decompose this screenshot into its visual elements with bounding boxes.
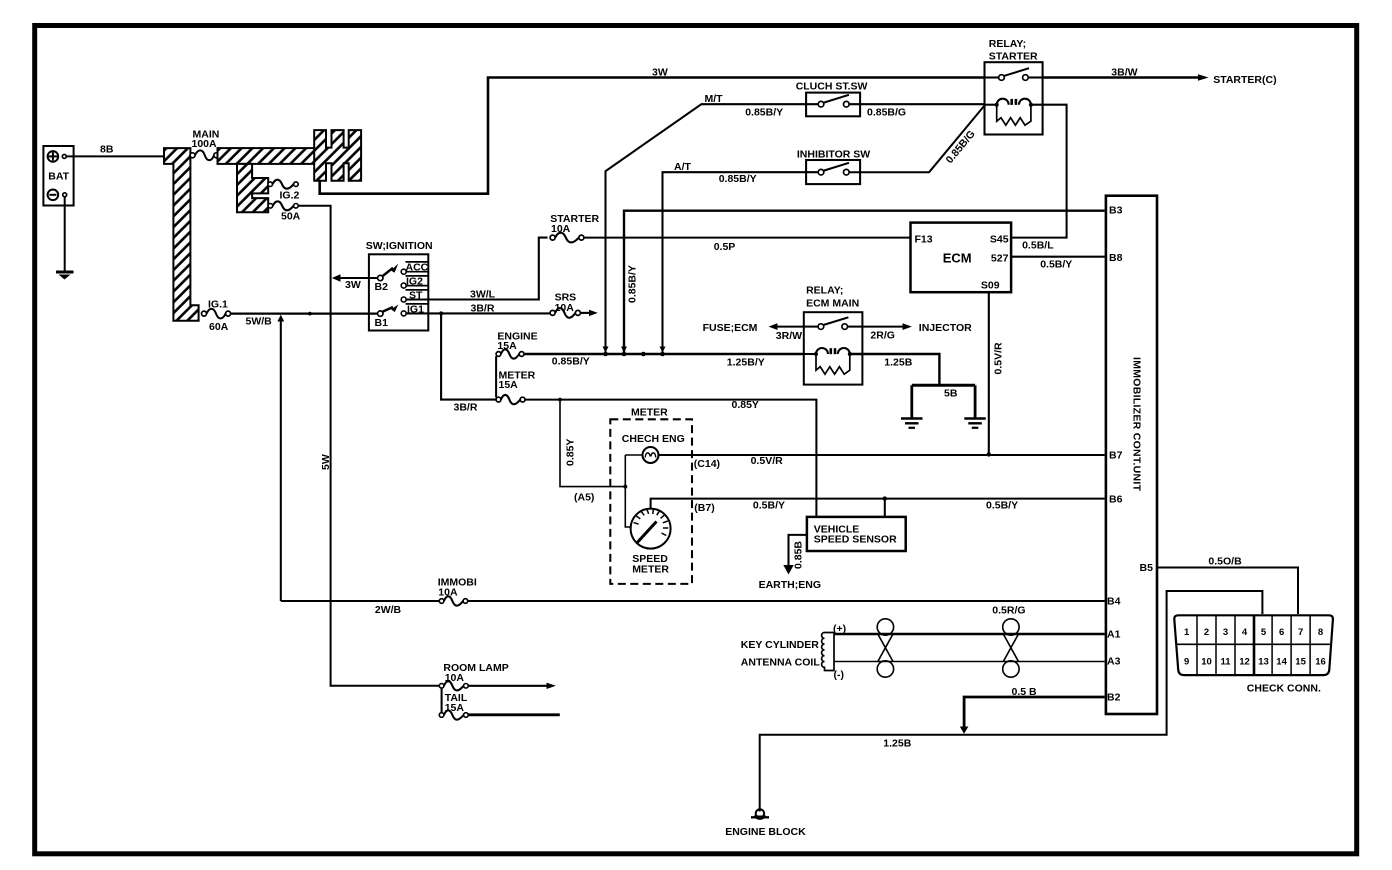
svg-text:5: 5: [1261, 627, 1267, 638]
terminal ACC: [401, 269, 406, 274]
wire 3W/L : ST to STARTER fuse: [406, 238, 547, 300]
wire 8B battery positive to fusible link: [67, 155, 165, 157]
battery BAT: [43, 146, 73, 206]
svg-text:8: 8: [1318, 627, 1323, 638]
svg-text:1.25B/Y: 1.25B/Y: [727, 356, 765, 368]
svg-text:3B/W: 3B/W: [1111, 66, 1137, 78]
wire 5W : IG.2 output down to room-lamp fuses: [298, 206, 439, 686]
svg-text:15: 15: [1295, 657, 1306, 668]
svg-text:ECM: ECM: [943, 250, 972, 265]
wire A/T branch: [663, 172, 819, 352]
sensor VEHICLE SPEED SENSOR: [807, 517, 906, 551]
svg-text:11: 11: [1220, 657, 1231, 668]
svg-text:(-): (-): [834, 669, 845, 681]
svg-text:14: 14: [1276, 657, 1287, 668]
fuse ROOM LAMP 10A with arrow: [439, 684, 444, 689]
svg-text:10: 10: [1201, 657, 1212, 668]
meter internal vertical: [625, 455, 631, 527]
svg-text:60A: 60A: [209, 321, 229, 333]
svg-text:10A: 10A: [555, 302, 575, 314]
junction dots on bus: [603, 352, 608, 357]
connector pin numbers 1-8: [1184, 627, 1323, 638]
relay starter coil: [985, 104, 997, 106]
ground bar 5B: [912, 384, 975, 387]
svg-text:2: 2: [1204, 627, 1209, 638]
svg-text:3W: 3W: [652, 66, 668, 78]
wire 1.25B : relay coil to ground bar: [850, 354, 940, 385]
meter box (dashed): [610, 419, 692, 584]
svg-text:2W/B: 2W/B: [375, 604, 402, 616]
svg-text:15A: 15A: [499, 379, 519, 391]
wire B3 branch (vertical + horizontal to immobilizer B3): [624, 211, 1105, 352]
svg-text:B6: B6: [1109, 493, 1123, 505]
svg-text:ANTENNA COIL: ANTENNA COIL: [741, 657, 821, 669]
wire 0.5P : STARTER fuse to ECM F13: [584, 237, 911, 239]
svg-text:3W: 3W: [345, 279, 361, 291]
wire 0.5B/Y : speedometer to immobilizer B6: [651, 499, 1105, 509]
svg-text:IG.2: IG.2: [280, 189, 300, 201]
svg-text:15A: 15A: [445, 702, 465, 714]
junction dot on 5W/B: [308, 312, 312, 316]
svg-text:0.5V/R: 0.5V/R: [993, 342, 1005, 375]
fuse (upper, unlabeled): [268, 182, 273, 187]
svg-text:12: 12: [1239, 657, 1250, 668]
svg-text:B2: B2: [1107, 691, 1121, 703]
svg-text:3R/W: 3R/W: [776, 330, 802, 342]
svg-text:7: 7: [1298, 627, 1303, 638]
switch CLUCH ST.SW: [806, 93, 860, 117]
svg-text:(B7): (B7): [694, 502, 714, 514]
wire to IMMOBI fuse (down from 5W/B) with up arrow: [277, 315, 284, 322]
branch to meter (A5): [558, 398, 562, 402]
wire 3B/R : IG1 to SRS fuse: [406, 312, 550, 314]
IG.2 branch hatched bar: [237, 164, 268, 212]
svg-text:B2: B2: [375, 281, 389, 293]
svg-text:0.5B/Y: 0.5B/Y: [986, 499, 1018, 511]
wire 3B/W : relay to STARTER(C): [1043, 76, 1200, 79]
relay RELAY;ECM MAIN: [804, 312, 863, 384]
wire 0.5O/B : B5 to check connector pin 7: [1157, 568, 1298, 615]
fuse IMMOBI 10A + wire 2W/B / 0.5R/G to immobilizer B4: [281, 600, 440, 602]
svg-text:5W: 5W: [320, 454, 332, 470]
svg-text:ENGINE BLOCK: ENGINE BLOCK: [725, 826, 806, 838]
svg-text:0.85B/Y: 0.85B/Y: [719, 173, 757, 185]
svg-text:0.5B/L: 0.5B/L: [1022, 240, 1054, 252]
svg-text:ACC: ACC: [406, 262, 429, 274]
svg-text:1.25B: 1.25B: [884, 357, 912, 369]
svg-text:10A: 10A: [445, 672, 465, 684]
fuse TAIL 15A: [441, 688, 443, 713]
terminal IG1: [401, 311, 406, 316]
svg-text:EARTH;ENG: EARTH;ENG: [759, 579, 821, 591]
vertical joining ENGINE/METER fuse inputs: [495, 356, 497, 397]
svg-text:0.5P: 0.5P: [714, 241, 736, 253]
wire 0.85B : sensor to EARTH;ENG: [789, 535, 807, 566]
svg-text:10A: 10A: [438, 587, 458, 599]
svg-text:0.5B/Y: 0.5B/Y: [1040, 258, 1072, 270]
wire 3R/W from FUSE;ECM: [769, 323, 778, 330]
svg-text:SPEED SENSOR: SPEED SENSOR: [814, 534, 897, 546]
svg-text:CHECH ENG: CHECH ENG: [622, 433, 685, 445]
wire 0.85B/Y / 1.25B/Y bus: [524, 353, 804, 355]
svg-text:STARTER(C): STARTER(C): [1213, 74, 1276, 86]
connector pin numbers 9-16: [1184, 657, 1326, 668]
svg-text:IMMOBILIZER CONT.UNIT: IMMOBILIZER CONT.UNIT: [1131, 357, 1143, 492]
svg-text:5W/B: 5W/B: [246, 316, 273, 328]
svg-text:6: 6: [1279, 627, 1284, 638]
horizontal hatched bus bar: [218, 148, 316, 164]
ECM box: [911, 223, 1012, 293]
immobilizer control unit box: [1106, 196, 1157, 714]
svg-text:RELAY;: RELAY;: [806, 284, 843, 296]
svg-text:0.85Y: 0.85Y: [732, 399, 759, 411]
svg-text:3: 3: [1223, 627, 1228, 638]
svg-text:FUSE;ECM: FUSE;ECM: [703, 322, 758, 334]
fuse STARTER 10A: [550, 235, 555, 240]
svg-text:METER: METER: [632, 564, 669, 576]
svg-text:0.5O/B: 0.5O/B: [1208, 556, 1242, 568]
wire 1.25B : ground run to engine block and check connector pin 5: [760, 591, 1263, 812]
svg-text:0.85B: 0.85B: [793, 541, 805, 569]
wire 0.85B/G cluch to starter relay coil: [849, 103, 984, 105]
wire 3W : to B2 with left arrow: [332, 274, 341, 281]
wire 0.5B/Y : ECM 527 to immobilizer B8: [1011, 256, 1105, 258]
svg-text:100A: 100A: [192, 138, 218, 150]
svg-text:1: 1: [1184, 627, 1190, 638]
svg-text:B8: B8: [1109, 252, 1123, 264]
comb fusible-link block: [314, 130, 361, 181]
fuse METER 15A: [496, 397, 501, 402]
svg-text:0.5R/G: 0.5R/G: [992, 605, 1025, 617]
svg-text:0.5 B: 0.5 B: [1012, 686, 1038, 698]
svg-text:B4: B4: [1107, 596, 1121, 608]
wire 0.5B/L : relay coil down to ECM S45 / immobilizer B3: [1011, 105, 1067, 238]
svg-text:A3: A3: [1107, 656, 1121, 668]
svg-text:CLUCH ST.SW: CLUCH ST.SW: [796, 80, 868, 92]
svg-text:F13: F13: [915, 233, 933, 245]
svg-text:INJECTOR: INJECTOR: [919, 322, 972, 334]
fusible link IG.1 60A: [202, 311, 207, 316]
svg-text:15A: 15A: [497, 340, 517, 352]
connector CHECK CONN.: [1174, 615, 1333, 675]
svg-text:0.85B/Y: 0.85B/Y: [627, 265, 639, 303]
wire 3W : comb link to starter relay: [320, 78, 985, 194]
svg-text:B3: B3: [1109, 204, 1123, 216]
terminal IG2: [401, 283, 406, 288]
svg-text:IG.1: IG.1: [208, 299, 228, 311]
svg-text:S45: S45: [990, 233, 1009, 245]
speedometer SPEED METER: [631, 509, 671, 549]
wire 5W/B : IG.1 to ignition switch B1: [231, 313, 378, 315]
svg-text:INHIBITOR SW: INHIBITOR SW: [797, 149, 870, 161]
svg-text:BAT: BAT: [48, 170, 69, 182]
svg-text:(A5): (A5): [574, 492, 594, 504]
svg-text:RELAY;: RELAY;: [989, 38, 1026, 50]
svg-text:13: 13: [1258, 657, 1269, 668]
terminal ST: [401, 297, 406, 302]
svg-text:2R/G: 2R/G: [870, 330, 895, 342]
svg-text:S09: S09: [981, 280, 1000, 292]
terminal B1 with blade: [378, 311, 383, 316]
wire (-) coil to immobilizer A3: [834, 661, 1105, 663]
fuse IG.2 50A: [268, 204, 273, 209]
svg-text:A/T: A/T: [674, 161, 692, 173]
svg-text:B1: B1: [375, 317, 389, 329]
wire M/T branch (vertical + diagonal): [606, 104, 819, 352]
svg-text:0.85Y: 0.85Y: [565, 439, 577, 466]
svg-text:(C14): (C14): [694, 458, 720, 470]
ground (battery): [56, 271, 74, 274]
terminal B2 with blade: [378, 275, 383, 280]
svg-text:0.5B/Y: 0.5B/Y: [753, 500, 785, 512]
svg-text:10A: 10A: [551, 223, 571, 235]
svg-text:SW;IGNITION: SW;IGNITION: [366, 240, 433, 252]
wire 0.85Y : METER fuse to vehicle speed sensor: [525, 400, 816, 517]
svg-text:METER: METER: [631, 406, 668, 418]
fuse ENGINE 15A: [496, 352, 501, 357]
svg-text:3B/R: 3B/R: [454, 402, 478, 414]
ground (left of 5B): [901, 417, 923, 420]
relay RELAY;STARTER: [985, 62, 1043, 134]
svg-text:3B/R: 3B/R: [471, 302, 495, 314]
junction dot + branch down to METER fuse: [439, 311, 443, 315]
fuse SRS 10A with right arrow: [550, 310, 555, 315]
svg-text:B7: B7: [1109, 450, 1123, 462]
twisted pair symbol 2: [1003, 619, 1019, 635]
svg-text:ECM MAIN: ECM MAIN: [806, 297, 859, 309]
ground ENGINE BLOCK: [756, 809, 764, 817]
fusible link block (battery feed): [164, 148, 199, 321]
svg-text:M/T: M/T: [705, 93, 724, 105]
switch INHIBITOR SW: [806, 160, 860, 184]
svg-text:0.5V/R: 0.5V/R: [751, 455, 784, 467]
svg-text:STARTER: STARTER: [989, 50, 1038, 62]
svg-text:9: 9: [1184, 657, 1189, 668]
wire 0.5 B : immobilizer B2 down to engine block net: [964, 697, 1105, 728]
svg-text:0.85B/G: 0.85B/G: [867, 106, 906, 118]
svg-text:4: 4: [1242, 627, 1248, 638]
fusible link MAIN 100A: [190, 153, 195, 158]
svg-text:IG2: IG2: [406, 276, 423, 288]
ground (right of 5B): [964, 417, 986, 420]
SW;IGNITION box: [369, 254, 428, 330]
svg-text:CHECK CONN.: CHECK CONN.: [1247, 682, 1321, 694]
svg-text:B5: B5: [1140, 562, 1154, 574]
wire (+) coil to immobilizer A1: [834, 633, 1105, 636]
ECM MAIN relay coil: [804, 353, 816, 355]
svg-text:3W/L: 3W/L: [470, 289, 496, 301]
svg-text:1.25B: 1.25B: [883, 737, 911, 749]
svg-text:8B: 8B: [100, 144, 114, 156]
wire 0.85B/G inhibitor diagonal to relay coil: [849, 106, 984, 173]
battery ground wire: [64, 197, 66, 272]
svg-text:KEY CYLINDER: KEY CYLINDER: [741, 639, 819, 651]
wire 0.5V/R : lamp to immobilizer B7: [659, 454, 1105, 456]
twisted pair symbol 1: [877, 619, 893, 635]
svg-text:50A: 50A: [281, 211, 301, 223]
svg-text:5B: 5B: [944, 387, 958, 399]
wire 2R/G to INJECTOR: [862, 326, 904, 328]
svg-text:16: 16: [1315, 657, 1326, 668]
wire 0.5V/R : ECM S09 down to B7 net: [988, 292, 990, 454]
svg-text:527: 527: [991, 252, 1009, 264]
svg-text:0.85B/Y: 0.85B/Y: [745, 106, 783, 118]
junction dot + branch to speed sensor: [883, 496, 887, 500]
svg-text:0.85B/Y: 0.85B/Y: [552, 356, 590, 368]
svg-text:A1: A1: [1107, 629, 1121, 641]
